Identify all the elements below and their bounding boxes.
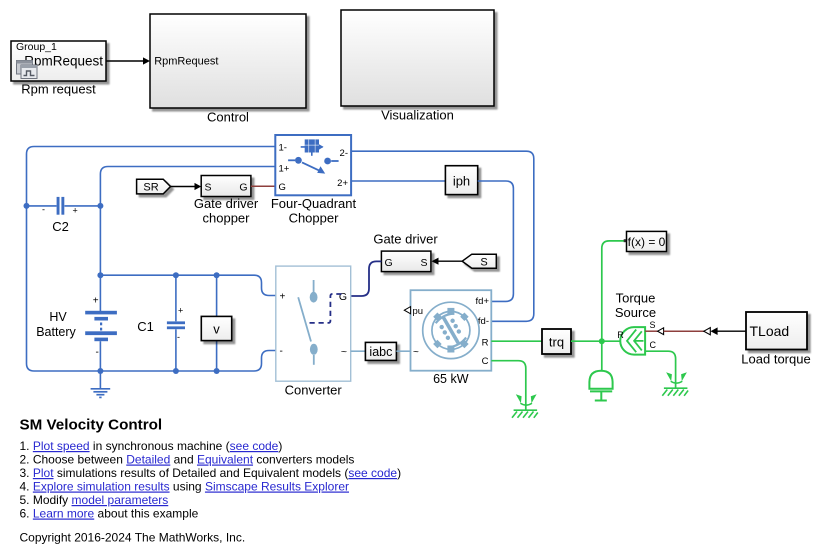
rotational reference machine <box>512 394 538 418</box>
svg-text:-: - <box>177 332 180 342</box>
node C2 right <box>97 203 103 209</box>
svg-text:fd-: fd- <box>478 316 489 327</box>
wire 2- to fd- <box>351 151 534 321</box>
label HV Battery <box>36 310 76 339</box>
svg-text:+: + <box>280 292 286 303</box>
wire gate G chopper (physical) <box>251 185 275 187</box>
svg-text:R: R <box>482 338 489 349</box>
svg-text:3. Plot simulations results of: 3. Plot simulations results of Detailed … <box>20 466 402 480</box>
svg-text:Group_1: Group_1 <box>16 41 57 53</box>
wire voltage sensor branch <box>216 275 218 371</box>
wire 2+ to iph <box>351 180 445 182</box>
svg-text:Rpm request: Rpm request <box>21 82 96 97</box>
ps arrowhead at S <box>658 328 664 335</box>
svg-text:fd+: fd+ <box>476 296 490 307</box>
battery HV Battery <box>85 296 117 372</box>
node battery bottom <box>97 368 103 374</box>
ground electrical reference <box>91 371 111 397</box>
node v bottom <box>214 368 220 374</box>
svg-text:2-: 2- <box>340 148 348 159</box>
svg-text:Gate driver: Gate driver <box>194 196 259 211</box>
svg-text:5. Modify model parameters: 5. Modify model parameters <box>20 493 169 507</box>
node C2 left <box>24 203 30 209</box>
node v top <box>214 272 220 278</box>
wire positive bus to converter <box>100 275 275 295</box>
wire ps line from converter triangle <box>664 330 704 332</box>
node bus top battery <box>97 272 103 278</box>
svg-text:2. Choose between Detailed and: 2. Choose between Detailed and Equivalen… <box>20 453 355 467</box>
svg-text:1-: 1- <box>279 143 287 154</box>
signal-builder icon in Rpm request <box>17 61 38 79</box>
svg-text:S: S <box>420 257 427 269</box>
svg-text:Copyright 2016-2024 The MathWo: Copyright 2016-2024 The MathWorks, Inc. <box>20 531 246 545</box>
svg-text:C: C <box>482 356 489 367</box>
annotation text <box>20 416 402 544</box>
subsystem Rpm request <box>11 41 106 81</box>
wire torque source C to reference <box>645 351 676 388</box>
wire dc bus left rail / 1- wire <box>27 147 276 372</box>
solver configuration f(x)=0 <box>624 231 667 251</box>
svg-text:1+: 1+ <box>279 164 290 175</box>
svg-text:G: G <box>239 182 247 194</box>
torque source block <box>617 320 656 355</box>
svg-text:-: - <box>42 205 45 215</box>
svg-text:iabc: iabc <box>369 345 392 359</box>
svg-text:Source: Source <box>615 305 656 320</box>
ps converter triangle <box>704 328 711 335</box>
node C1 top <box>173 272 179 278</box>
svg-text:trq: trq <box>549 335 564 350</box>
machine 65 kW <box>404 290 491 371</box>
svg-text:Load torque: Load torque <box>741 352 810 367</box>
node green junction <box>599 338 605 344</box>
svg-text:pu: pu <box>413 306 424 317</box>
machine icon <box>423 302 479 358</box>
chopper icon switch <box>288 157 339 174</box>
svg-text:+: + <box>93 296 99 307</box>
current sensor iabc <box>365 342 396 360</box>
label Four-Quadrant Chopper <box>271 196 357 226</box>
node C1 bottom <box>173 368 179 374</box>
svg-text:S: S <box>480 257 487 269</box>
svg-text:G: G <box>339 291 347 303</box>
wire C1 branch <box>175 275 177 371</box>
wire TLoad to converter <box>717 330 746 332</box>
rotational motion sensor dome <box>589 371 612 401</box>
svg-text:Torque: Torque <box>616 291 656 306</box>
svg-text:Chopper: Chopper <box>289 211 340 226</box>
constant TLoad <box>746 312 807 350</box>
wire trq to torque source <box>571 340 621 342</box>
svg-text:Four-Quadrant: Four-Quadrant <box>271 196 357 211</box>
svg-text:4. Explore simulation results: 4. Explore simulation results using Sims… <box>20 480 350 494</box>
svg-text:+: + <box>178 306 183 316</box>
wire machine R to trq <box>491 340 542 342</box>
chopper Four-Quadrant Chopper <box>275 135 351 195</box>
svg-text:f(x) = 0: f(x) = 0 <box>628 235 666 249</box>
svg-text:Visualization: Visualization <box>381 108 454 123</box>
converter block <box>276 266 351 381</box>
wire S tag to gate driver <box>432 258 463 265</box>
svg-text:C: C <box>650 340 657 350</box>
wire converter to iabc <box>351 350 366 352</box>
svg-text:RpmRequest: RpmRequest <box>154 56 218 68</box>
wire iabc to machine <box>396 350 410 352</box>
svg-text:SM Velocity Control: SM Velocity Control <box>20 416 163 433</box>
svg-text:2+: 2+ <box>337 178 348 189</box>
svg-text:Battery: Battery <box>36 325 76 339</box>
wire gate driver G to converter <box>351 261 382 296</box>
svg-text:HV: HV <box>49 310 67 324</box>
svg-text:6. Learn more about this examp: 6. Learn more about this example <box>20 507 199 521</box>
torque sensor trq <box>542 329 571 354</box>
svg-text:1. Plot speed in synchronous m: 1. Plot speed in synchronous machine (se… <box>20 439 283 453</box>
arrowhead TLoad signal <box>711 327 718 335</box>
converter switch icon <box>298 280 317 365</box>
svg-text:-: - <box>280 346 283 357</box>
svg-text:G: G <box>385 257 393 269</box>
svg-text:S: S <box>205 182 212 194</box>
svg-text:Gate driver: Gate driver <box>373 232 438 247</box>
current sensor iph <box>445 166 477 195</box>
goto tag SR <box>137 179 171 194</box>
svg-text:65 kW: 65 kW <box>433 372 469 386</box>
wire 1+ rail <box>100 167 275 312</box>
svg-text:G: G <box>279 182 286 193</box>
svg-text:R: R <box>617 330 624 340</box>
subsystem Gate driver <box>381 251 431 272</box>
wire SR to gate driver chopper <box>171 183 202 190</box>
wire C2 branch <box>27 205 101 207</box>
capacitor C2 <box>42 197 78 216</box>
svg-text:Control: Control <box>207 110 249 125</box>
voltage sensor v <box>201 316 231 340</box>
converter gate dashed line <box>306 294 342 323</box>
svg-text:chopper: chopper <box>203 211 251 226</box>
svg-text:C2: C2 <box>52 219 69 234</box>
subsystem Visualization <box>341 10 494 106</box>
wire torque source S stub (physical signal) <box>645 330 658 332</box>
capacitor C1 <box>167 306 185 343</box>
svg-text:iph: iph <box>453 174 470 189</box>
svg-text:+: + <box>73 206 78 216</box>
svg-text:~: ~ <box>341 346 347 358</box>
svg-text:TLoad: TLoad <box>750 323 790 339</box>
wire junction to motion sensor <box>601 341 603 370</box>
from tag S <box>462 254 496 268</box>
svg-text:S: S <box>650 320 656 330</box>
subsystem Control <box>150 14 306 108</box>
svg-text:-: - <box>96 347 99 358</box>
svg-text:C1: C1 <box>137 319 154 334</box>
label Torque Source <box>615 291 656 320</box>
wire machine C to reference <box>491 361 526 410</box>
rotational reference right <box>662 372 688 396</box>
subsystem Gate driver chopper <box>201 176 251 197</box>
wire junction to solver <box>602 241 627 341</box>
chopper icon IGBT <box>301 139 324 155</box>
svg-text:Converter: Converter <box>285 383 343 398</box>
label Gate driver chopper <box>194 196 259 226</box>
wire RpmRequest signal <box>106 57 150 64</box>
svg-text:SR: SR <box>143 182 158 194</box>
wire iph to fd+ <box>478 181 514 301</box>
svg-text:~: ~ <box>413 347 419 358</box>
svg-text:v: v <box>213 322 220 337</box>
